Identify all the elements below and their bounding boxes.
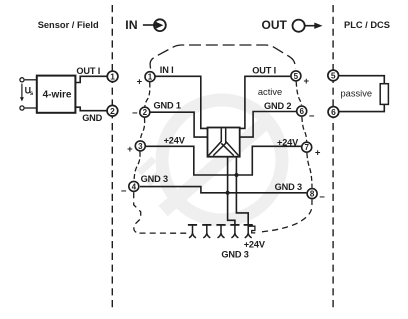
svg-text:4-wire: 4-wire (43, 90, 72, 101)
svg-text:IN: IN (125, 18, 137, 32)
svg-text:+: + (127, 144, 133, 155)
svg-text:+: + (315, 148, 321, 159)
svg-text:−: − (309, 111, 315, 122)
svg-text:−: − (132, 108, 138, 119)
svg-text:OUT I: OUT I (76, 66, 100, 76)
svg-text:−: − (319, 192, 325, 203)
svg-text:+: + (304, 76, 310, 87)
svg-text:s: s (30, 90, 34, 97)
svg-text:8: 8 (310, 190, 315, 199)
svg-text:4: 4 (132, 182, 137, 191)
svg-text:active: active (258, 87, 282, 97)
svg-text:IN I: IN I (160, 65, 174, 75)
svg-text:OUT I: OUT I (252, 65, 276, 75)
svg-text:GND 2: GND 2 (264, 101, 291, 111)
svg-text:3: 3 (138, 142, 143, 151)
svg-text:passive: passive (341, 88, 373, 98)
svg-text:Sensor / Field: Sensor / Field (38, 20, 99, 30)
svg-text:6: 6 (331, 107, 336, 117)
svg-text:6: 6 (299, 107, 304, 116)
svg-text:7: 7 (304, 143, 309, 152)
svg-text:+24V: +24V (244, 240, 266, 250)
svg-text:GND 3: GND 3 (141, 174, 168, 184)
svg-text:GND 3: GND 3 (221, 249, 248, 259)
svg-text:GND 1: GND 1 (154, 100, 181, 110)
svg-text:GND: GND (82, 113, 102, 123)
svg-text:+24V: +24V (277, 137, 299, 147)
svg-text:2: 2 (110, 106, 115, 116)
svg-text:5: 5 (294, 72, 299, 81)
svg-text:5: 5 (331, 71, 336, 81)
svg-text:1: 1 (110, 72, 115, 82)
svg-text:−: − (121, 186, 127, 197)
svg-text:2: 2 (143, 108, 148, 117)
svg-text:OUT: OUT (262, 18, 288, 32)
svg-text:+24V: +24V (164, 136, 186, 146)
svg-text:1: 1 (148, 73, 153, 82)
svg-text:GND 3: GND 3 (275, 182, 302, 192)
svg-text:PLC / DCS: PLC / DCS (344, 20, 390, 30)
svg-text:+: + (137, 77, 143, 88)
